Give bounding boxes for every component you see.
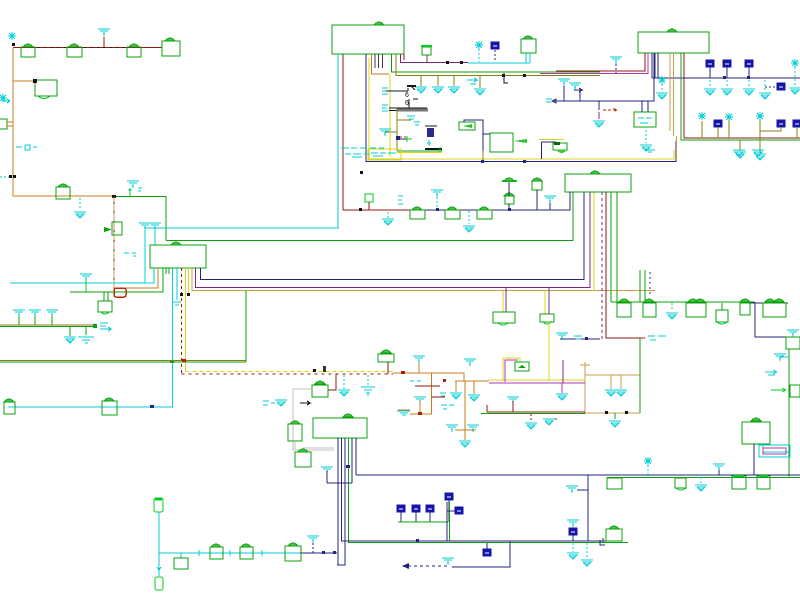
capacitor C4 xyxy=(723,60,731,78)
label cyan r120 xyxy=(407,116,420,125)
component U15 box xyxy=(790,385,800,397)
tap stub x35 xyxy=(29,310,41,325)
pin yellow x188 stub xyxy=(180,268,190,296)
glyph navy pins xyxy=(600,538,605,545)
component K1 box on brown xyxy=(112,222,122,235)
op-amp U3 body xyxy=(150,245,206,268)
wire brown x585 xyxy=(584,365,586,413)
pin magenta y73.5 xyxy=(540,53,648,74)
component U24 box xyxy=(539,140,567,160)
wire navy dashed y566 xyxy=(408,565,450,567)
junction tick xyxy=(416,539,419,542)
wire maroon into U18 xyxy=(328,374,336,390)
riser green x640 xyxy=(639,270,641,302)
component U19 above bus xyxy=(378,350,394,374)
wire cyan vert x145 xyxy=(144,227,146,283)
tap stub x19 xyxy=(13,310,25,325)
cap C7 olive leg xyxy=(698,112,706,138)
wire green y413.5 xyxy=(481,413,585,415)
riser red x487 xyxy=(486,405,488,412)
riser purple x563 xyxy=(562,360,564,383)
component U16 box xyxy=(742,418,770,444)
gnd G8 xyxy=(666,303,678,319)
wire cyan long x172 xyxy=(8,268,173,407)
power T7 xyxy=(544,196,556,210)
power tap T8 xyxy=(774,354,789,361)
capacitor C18 xyxy=(426,505,434,522)
component U11 box xyxy=(521,36,536,63)
svg-text:6: 6 xyxy=(405,100,409,107)
connector J5 left edge xyxy=(0,119,13,129)
net arrow right navy xyxy=(569,83,582,101)
pin navy x352 xyxy=(327,438,352,483)
capacitor C2 blue xyxy=(491,42,499,62)
gnd drop x421 xyxy=(415,76,427,94)
junction dot xyxy=(443,379,446,382)
component D4 box xyxy=(459,120,483,160)
net label text row xyxy=(16,145,37,150)
transistor Q1 cluster black xyxy=(385,86,416,99)
pin green stubs xyxy=(166,268,169,274)
pin maroon x684 xyxy=(684,53,800,138)
power tap T5 xyxy=(610,57,622,73)
pin dashed red x181 xyxy=(181,268,183,374)
label cyan dashes xyxy=(263,401,275,405)
gray bar xyxy=(397,109,428,112)
cap C9 star xyxy=(725,113,733,138)
power star P5 xyxy=(475,41,483,62)
pin navy x754 to bus xyxy=(753,444,755,476)
power T10 xyxy=(414,397,426,414)
gnd drop x368 xyxy=(361,375,375,396)
pin olive bus y75 xyxy=(396,54,600,76)
op-amp U4 body xyxy=(313,418,367,438)
border tan x676.5 xyxy=(676,136,678,160)
wire green bus y326 xyxy=(0,325,95,327)
wire olive y132 xyxy=(385,131,397,133)
wire cyan horiz y228 to U1 xyxy=(145,227,339,229)
op-amp U5 body xyxy=(565,174,631,192)
pin green x573 long bus y240 xyxy=(166,192,573,241)
cap C14 xyxy=(477,207,492,219)
junction on bus xyxy=(170,360,174,363)
riser purple x506 xyxy=(505,288,507,312)
label arrow green A3 xyxy=(771,388,786,392)
junction dot navy xyxy=(150,405,154,408)
pin tan long bus xyxy=(192,268,655,291)
wire navy x755 elbow xyxy=(755,303,787,337)
node A dot xyxy=(12,43,15,46)
vcc tee brown xyxy=(580,362,590,365)
pin cyan elbow xyxy=(763,444,789,452)
pin pale cyan x177 xyxy=(173,268,181,305)
gnd G4 xyxy=(721,80,733,95)
capacitor C20 side xyxy=(447,507,463,514)
connector J2 xyxy=(67,44,82,57)
connector J13 xyxy=(763,299,786,317)
power T13 xyxy=(713,464,725,475)
label box L1 xyxy=(368,149,401,160)
pin purple bus y62 xyxy=(401,54,469,63)
pin purple long bus xyxy=(196,192,591,288)
arrow into K1 xyxy=(104,227,112,232)
label dash cyan xyxy=(645,150,655,152)
gnd G7 below bus xyxy=(463,211,475,232)
wire brown y375 xyxy=(585,374,640,376)
wire navy pair x447 xyxy=(446,502,448,541)
component B2 bottom xyxy=(155,567,163,590)
connector J15 xyxy=(675,478,686,490)
wire cyan y553 xyxy=(159,552,300,554)
wire tick marks xyxy=(38,47,126,49)
wire cyan vert x155 xyxy=(154,227,156,245)
pin navy long bus xyxy=(201,192,585,280)
gnd G2 dashed xyxy=(74,198,86,218)
pin tan x673 xyxy=(673,53,675,136)
comb branch y397 xyxy=(432,396,446,398)
gnd drop x454 xyxy=(448,76,460,94)
wire olive y360.5 xyxy=(0,360,246,362)
riser yellow to IC2 xyxy=(593,192,595,291)
pin maroon y71 xyxy=(556,53,645,71)
gnd stub x615 xyxy=(609,413,621,427)
node dot navy xyxy=(396,136,400,140)
bus yellow y380 xyxy=(489,379,585,381)
component U23 box xyxy=(483,133,527,152)
gnd arrow below xyxy=(459,441,471,447)
cap C13 xyxy=(445,207,460,219)
label arrow left xyxy=(546,99,556,103)
wire orange bus y373 xyxy=(393,373,464,381)
component U20 box xyxy=(606,526,622,541)
connector J10 xyxy=(686,299,706,317)
capacitor C19 xyxy=(445,493,453,522)
wire green from orange junction xyxy=(114,197,166,241)
capacitor C11 right edge xyxy=(793,120,800,138)
label cyan rt xyxy=(440,393,446,396)
cap + gnd x573 xyxy=(567,520,579,559)
gnd below U12 xyxy=(640,130,652,151)
label cyan rs xyxy=(410,380,421,382)
wire maroon y210 left xyxy=(343,209,420,211)
label cyan row1 xyxy=(341,147,384,149)
connector J12 xyxy=(740,299,750,315)
power tap P1 xyxy=(98,29,110,47)
cap C15 above bus xyxy=(504,193,514,210)
tick olive x483 xyxy=(482,151,484,162)
junction dots xyxy=(723,76,750,79)
cap C6 dashed leg xyxy=(759,80,785,99)
junction dot red xyxy=(401,371,405,374)
stub olive x480 xyxy=(474,76,486,96)
capacitor C3 xyxy=(706,60,714,78)
pin maroon x606 xyxy=(606,192,645,338)
junction dots y413 xyxy=(605,411,628,414)
junction dot red xyxy=(182,359,186,362)
net label G1 xyxy=(0,94,10,103)
op-amp U1 body xyxy=(332,25,404,54)
pin navy x570 bus y210 xyxy=(420,192,570,210)
pin green to y292 xyxy=(70,268,163,292)
elbow navy x510 xyxy=(452,541,510,567)
arrow black xyxy=(300,401,310,405)
gnd drop x621 xyxy=(615,375,627,396)
drop navy x588 xyxy=(587,475,589,541)
component R3 small sq xyxy=(365,194,373,210)
power T9 xyxy=(413,356,425,373)
gnd G3 xyxy=(704,80,716,95)
wide tap T11 xyxy=(397,411,410,415)
power T6 xyxy=(431,190,443,210)
power T14 xyxy=(442,558,454,565)
power tap P3 xyxy=(127,181,142,196)
junction dot x525 xyxy=(523,74,526,77)
wire gray links xyxy=(295,441,334,449)
gnd stub x740 xyxy=(734,140,746,158)
wire green y477.5 xyxy=(607,477,800,479)
wire green pair x449 xyxy=(449,502,451,541)
pin navy x356 xyxy=(355,438,357,475)
pin navy x345 xyxy=(337,438,345,565)
pin maroon x343 xyxy=(342,54,344,210)
label cyan pair xyxy=(556,333,588,340)
wire cyan segment y63 xyxy=(468,62,530,64)
wire green y522 xyxy=(398,521,448,523)
component U12 box xyxy=(634,101,656,127)
wire navy stub y139 xyxy=(398,138,407,140)
junction marks xyxy=(313,366,326,372)
U4 top arc xyxy=(343,414,353,417)
component B1 top xyxy=(154,498,163,512)
label arrow cyan xyxy=(467,78,477,84)
connector J14 xyxy=(607,478,622,489)
junction dots x13 y177 xyxy=(0,175,16,178)
red dashes xyxy=(400,136,408,138)
junction dots y210 xyxy=(436,208,511,211)
junction dot xyxy=(346,465,350,468)
op-amp U2 body xyxy=(638,32,709,53)
wire navy y541 xyxy=(341,540,617,542)
power T15 xyxy=(307,536,319,553)
connector J4 xyxy=(162,38,180,56)
wire orange branch to U10 xyxy=(13,80,35,82)
label ticks cyan xyxy=(199,550,262,556)
U2 top arc xyxy=(667,29,677,32)
riser green x246 xyxy=(245,291,247,363)
sheet border yellow xyxy=(369,58,674,159)
connector J16 xyxy=(732,476,746,489)
label arrow A2 xyxy=(765,370,777,375)
bus y381 orange xyxy=(455,380,489,382)
gnd G10 xyxy=(695,477,707,491)
label cyan q2 xyxy=(382,105,388,111)
pin stubs navy xyxy=(375,54,383,68)
connector J8 xyxy=(617,299,631,317)
gnd drop x86b xyxy=(78,327,94,343)
wire olive y120 xyxy=(397,119,411,121)
connector J11 low xyxy=(716,303,728,324)
component U17 xyxy=(515,362,529,371)
highlighted component D1 red box xyxy=(114,288,126,297)
riser red x513 + tap xyxy=(507,397,519,412)
main orange vert x465 xyxy=(464,381,466,440)
power star G9 xyxy=(644,457,652,475)
U5 top arc xyxy=(590,171,600,174)
cap row under y210: C12 xyxy=(410,207,425,219)
capacitor C10 xyxy=(760,120,785,131)
gnd drop x438 xyxy=(432,76,444,94)
pin orange elbow xyxy=(372,54,390,74)
label cyan row2 xyxy=(345,154,370,157)
gnd drop x70 xyxy=(64,327,76,343)
wire green y542.5 xyxy=(348,542,628,544)
wire green x640 xyxy=(639,338,641,413)
riser green x645 xyxy=(644,270,646,302)
component U14 box xyxy=(786,330,800,349)
power tap P4 xyxy=(80,274,92,292)
component R9 xyxy=(285,543,301,561)
wire green y362 xyxy=(0,361,246,363)
power T12 xyxy=(321,467,333,483)
riser navy dotted x650 xyxy=(649,272,651,296)
wire green/yellow y151 xyxy=(397,151,442,153)
pin green x348 xyxy=(348,438,350,543)
loop yellow to U17 xyxy=(503,358,520,382)
connector J6 down xyxy=(98,292,112,314)
wire green bus y302 xyxy=(611,301,755,303)
gnd drop x344 xyxy=(338,375,350,396)
transistor Q3 navy xyxy=(425,126,442,152)
label cyan right of maroon xyxy=(648,336,666,340)
capacitor C17 xyxy=(412,505,420,522)
wire navy y475 xyxy=(356,474,800,476)
U1 top arc xyxy=(374,22,384,25)
junction dot xyxy=(359,208,362,211)
component arc on green bus xyxy=(171,242,181,245)
junction dot xyxy=(112,195,116,198)
connector J3 xyxy=(127,44,141,57)
pin cyan to y283 xyxy=(10,268,154,283)
wire navy y553 seg xyxy=(300,552,337,554)
gnd drop x474 xyxy=(468,381,480,401)
wire brown y413 xyxy=(585,412,640,414)
wire gray xyxy=(293,389,334,450)
label text cyan xyxy=(124,253,136,256)
label cyan pair2 xyxy=(441,405,454,409)
stub purple x599 xyxy=(593,101,605,127)
wire navy y339 xyxy=(560,338,600,340)
comb branch y386 xyxy=(415,385,440,387)
component R4 xyxy=(288,421,302,441)
junction + label xyxy=(93,323,111,331)
pin navy x338 xyxy=(337,438,339,565)
pin purple dashed x602 xyxy=(601,192,603,340)
bus magenta y383 xyxy=(489,382,585,384)
arrow head left xyxy=(402,563,409,569)
connector J7 xyxy=(4,399,15,414)
connector J17 xyxy=(757,476,770,489)
capacitor C5 xyxy=(745,60,753,78)
riser purple x549a xyxy=(548,288,550,314)
label T2 cyan xyxy=(149,223,161,230)
power sym x662 xyxy=(656,76,668,99)
connector J9 xyxy=(643,299,656,317)
gnd drop x458 xyxy=(450,381,462,399)
riser yellow x503 xyxy=(502,291,504,312)
inner yellow border xyxy=(389,74,391,157)
wire navy bus y78 xyxy=(652,77,800,79)
label T1 cyan xyxy=(139,223,151,230)
gnd drop x531 xyxy=(525,414,537,429)
wire green long x789 xyxy=(788,349,790,478)
comb base y414 xyxy=(410,413,432,415)
component R6 below wire xyxy=(174,553,188,569)
vcc bar D3 xyxy=(502,178,517,196)
power sym right edge xyxy=(789,59,800,94)
component R7 xyxy=(210,544,223,559)
pin green bus y72 xyxy=(392,54,601,72)
component U18 xyxy=(312,381,328,397)
gnd x587 xyxy=(581,543,593,566)
capacitor C21 below xyxy=(483,543,491,556)
pin green x611 xyxy=(610,192,612,302)
cap C1 green-top xyxy=(421,46,432,62)
wire olive vert x397 xyxy=(396,109,398,151)
power tap T4 xyxy=(558,79,570,101)
transistor Q2 cluster black xyxy=(389,99,427,111)
U3 top arc xyxy=(171,242,181,245)
component R8 xyxy=(240,544,253,559)
label cyan q1 xyxy=(382,88,388,94)
gnd drop magenta x562 xyxy=(556,383,568,400)
component R5 xyxy=(295,449,311,467)
label box cyan/magenta xyxy=(759,445,790,457)
pin navy x366 sheet border xyxy=(366,54,676,162)
pin yellow x185 xyxy=(185,268,187,372)
wire net1 maroon horizontal xyxy=(13,47,162,49)
pins navy to gnd bus xyxy=(652,53,658,78)
power T16 xyxy=(566,486,588,493)
pin green x617 xyxy=(616,192,618,302)
comb horiz y410 xyxy=(398,409,410,411)
gnd sym xyxy=(275,400,287,406)
junction dots navy bus xyxy=(360,160,526,174)
junction dots purple bus xyxy=(446,61,463,64)
label cyan T3 xyxy=(379,129,391,136)
gnd G5 xyxy=(743,80,755,95)
power label P2 xyxy=(8,32,16,40)
wire orange trunk xyxy=(13,48,114,197)
wire navy y101 xyxy=(552,53,654,101)
gnd arrow x758 xyxy=(752,150,764,156)
power T17 xyxy=(464,359,476,366)
label cyan x400 xyxy=(398,196,403,204)
pin orange to red box xyxy=(126,268,158,288)
component U13 xyxy=(532,178,542,210)
junction dots xyxy=(322,551,336,554)
component U22 box xyxy=(540,314,554,324)
wire maroon y412 xyxy=(487,411,585,413)
cross y430 xyxy=(446,425,479,432)
connector J1 xyxy=(21,44,35,57)
gnd G6 xyxy=(382,212,394,225)
gnd arrow x739 xyxy=(733,150,745,156)
tap stub x52 xyxy=(46,310,58,325)
pin tan x670 xyxy=(669,53,671,131)
component D2 green tee xyxy=(407,136,412,142)
component U10 box xyxy=(33,79,57,99)
arrow red glyph xyxy=(603,108,617,112)
